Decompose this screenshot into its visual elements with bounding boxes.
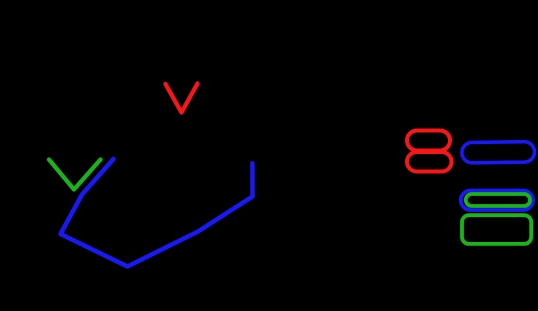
red rounded box bottom xyxy=(407,152,452,172)
green check V xyxy=(49,160,101,190)
green rounded box bottom xyxy=(462,215,531,244)
blue polyline stroke xyxy=(61,159,253,267)
red check V xyxy=(166,84,198,113)
blue stadium middle xyxy=(461,191,533,211)
red rounded box top xyxy=(407,131,450,151)
blue stadium top xyxy=(462,142,535,163)
green stadium inside middle xyxy=(466,194,530,206)
